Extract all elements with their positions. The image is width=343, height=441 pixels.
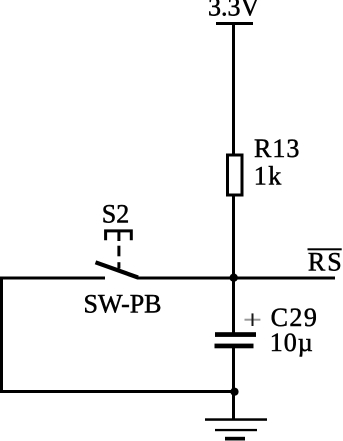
svg-text:10µ: 10µ [270,328,314,357]
svg-text:1k: 1k [254,161,283,190]
svg-text:R13: R13 [254,134,300,163]
svg-text:S2: S2 [102,200,129,229]
svg-text:SW-PB: SW-PB [84,289,162,318]
svg-text:3.3V: 3.3V [208,0,260,22]
svg-text:RS: RS [308,247,343,276]
